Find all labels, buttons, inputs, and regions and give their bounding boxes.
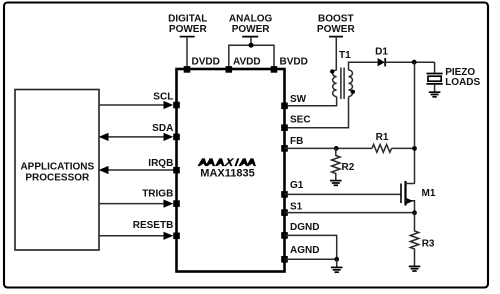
BOOST POWER bar [329, 36, 343, 38]
pin G1 [281, 191, 288, 198]
junction dot D1 node [412, 60, 417, 65]
junction dot analog [249, 43, 254, 48]
T1 secondary winding [349, 70, 353, 97]
svg-text:S1: S1 [290, 202, 303, 213]
wire BOOST POWER to T1 primary [335, 37, 337, 70]
svg-text:AGND: AGND [290, 245, 319, 256]
pin SEC [281, 124, 288, 131]
svg-text:PIEZO: PIEZO [445, 67, 475, 78]
T1 core [341, 68, 344, 100]
arrow IRQB left [99, 166, 109, 174]
svg-text:SCL: SCL [153, 91, 173, 102]
wire RESETB [99, 235, 164, 237]
svg-text:R2: R2 [342, 162, 355, 173]
BOOST POWER label [317, 14, 356, 35]
svg-text:POWER: POWER [169, 24, 208, 35]
T1 primary winding [333, 70, 337, 97]
svg-text:POWER: POWER [317, 24, 356, 35]
svg-text:FB: FB [290, 136, 303, 147]
svg-text:APPLICATIONS: APPLICATIONS [20, 161, 94, 172]
MAXIM logo [198, 158, 256, 166]
svg-text:MAX11835: MAX11835 [200, 168, 254, 180]
arrow TRIGB [164, 200, 174, 208]
wire node to M1 drain (vertical) [414, 62, 416, 184]
svg-text:DVDD: DVDD [192, 57, 220, 68]
svg-text:IRQB: IRQB [148, 158, 173, 169]
resistor R3 [410, 213, 418, 266]
pin S1 [281, 209, 288, 216]
svg-text:BOOST: BOOST [318, 14, 354, 25]
svg-text:LOADS: LOADS [445, 77, 480, 88]
junction dot R1 right [412, 146, 417, 151]
junction dot FB/R2 [334, 146, 339, 151]
arrow SCL [164, 101, 174, 109]
wire T1 secondary top to D1 [349, 62, 378, 70]
wire DIGITAL POWER to DVDD [186, 37, 188, 69]
svg-text:ANALOG: ANALOG [229, 14, 273, 25]
pin AGND [281, 256, 288, 263]
svg-text:SDA: SDA [152, 123, 173, 134]
pin SDA [173, 134, 180, 141]
svg-text:AVDD: AVDD [233, 57, 261, 68]
svg-text:R1: R1 [376, 132, 389, 143]
ground piezo [429, 92, 441, 97]
pin AVDD [226, 66, 233, 73]
junction dot S1/R3 [412, 210, 417, 215]
ground R3 [409, 266, 421, 271]
resistor R1 [372, 145, 392, 153]
svg-text:PROCESSOR: PROCESSOR [25, 173, 90, 184]
ground DGND/AGND [331, 267, 343, 272]
wire D1 to node [385, 61, 434, 63]
pin DGND [281, 232, 288, 239]
pin IRQB [173, 167, 180, 174]
applications processor box [15, 90, 99, 251]
arrow SDA left [99, 133, 109, 141]
diode D1 [375, 46, 388, 66]
wire S1 to M1 source [285, 212, 415, 214]
svg-text:POWER: POWER [232, 24, 271, 35]
junction dot AGND [334, 257, 339, 262]
T1 secondary phase dot [351, 90, 355, 94]
pin BVDD [271, 66, 278, 73]
pin FB [281, 145, 288, 152]
wire T1 secondary bottom to SEC pin [285, 97, 349, 128]
arrow SDA right [164, 133, 174, 141]
svg-text:DIGITAL: DIGITAL [168, 14, 207, 25]
piezo load [427, 62, 443, 92]
wire SDA [107, 136, 164, 138]
wire TRIGB [99, 203, 164, 205]
svg-text:TRIGB: TRIGB [142, 188, 173, 199]
wire R1 to drain line [392, 147, 415, 149]
T1 primary phase dot [330, 69, 334, 73]
svg-text:R3: R3 [422, 238, 435, 249]
pin TRIGB [173, 200, 180, 207]
pin SW [281, 103, 288, 110]
svg-text:SW: SW [290, 94, 307, 105]
pin SCL [173, 102, 180, 109]
wire AGND to ground node [285, 258, 337, 260]
wire to ground [336, 259, 338, 267]
wire IRQB [107, 169, 177, 171]
svg-text:M1: M1 [422, 188, 436, 199]
wire SCL [99, 104, 164, 106]
DIGITAL POWER bar [180, 36, 195, 38]
wire G1 to M1 gate [285, 193, 402, 195]
svg-text:T1: T1 [339, 50, 351, 61]
pin RESETB [173, 233, 180, 240]
wire ANALOG POWER to node [229, 37, 274, 69]
transformer T1 [330, 50, 355, 99]
wire DGND to ground node [285, 235, 337, 259]
arrow RESETB [164, 232, 174, 240]
ground R2 [330, 181, 342, 186]
svg-text:SEC: SEC [290, 115, 311, 126]
svg-text:DGND: DGND [290, 222, 319, 233]
IC U1 MAX11835 box [177, 69, 285, 272]
ANALOG POWER label [229, 14, 273, 35]
ANALOG POWER bar [242, 36, 258, 38]
transistor M1 [401, 181, 436, 213]
svg-text:D1: D1 [375, 46, 388, 57]
wire T1 primary bottom to SW pin [285, 97, 337, 106]
wire FB to R1 [285, 147, 373, 149]
pin DVDD [184, 66, 191, 73]
DIGITAL POWER label [168, 14, 207, 35]
resistor R2 [332, 148, 340, 180]
svg-text:G1: G1 [290, 180, 304, 191]
PIEZO LOADS label [445, 67, 480, 88]
svg-text:RESETB: RESETB [133, 220, 174, 231]
svg-text:BVDD: BVDD [280, 57, 308, 68]
